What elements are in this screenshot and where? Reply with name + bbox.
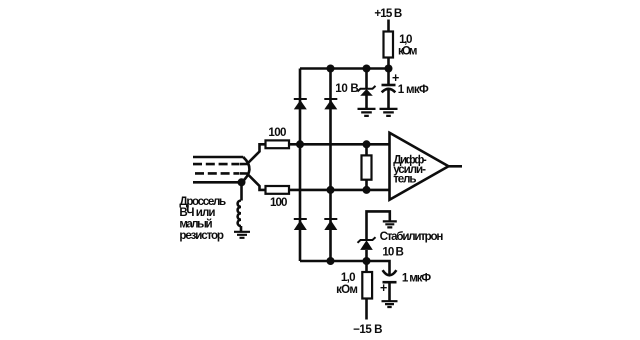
- svg-text:кОм: кОм: [336, 283, 358, 296]
- svg-text:1 мкФ: 1 мкФ: [402, 272, 431, 285]
- svg-text:кОм: кОм: [398, 45, 418, 58]
- svg-text:100: 100: [268, 126, 286, 139]
- svg-text:резистор: резистор: [179, 229, 224, 242]
- svg-text:10 В: 10 В: [382, 245, 404, 258]
- svg-text:+15 В: +15 В: [374, 7, 402, 20]
- svg-text:+: +: [380, 281, 387, 295]
- svg-text:−15 В: −15 В: [353, 323, 382, 336]
- svg-text:Стабилитрон: Стабилитрон: [380, 230, 444, 243]
- svg-text:тель: тель: [393, 173, 416, 186]
- svg-text:100: 100: [270, 196, 288, 209]
- svg-text:10 В: 10 В: [335, 82, 359, 95]
- svg-text:1 мкФ: 1 мкФ: [398, 83, 429, 96]
